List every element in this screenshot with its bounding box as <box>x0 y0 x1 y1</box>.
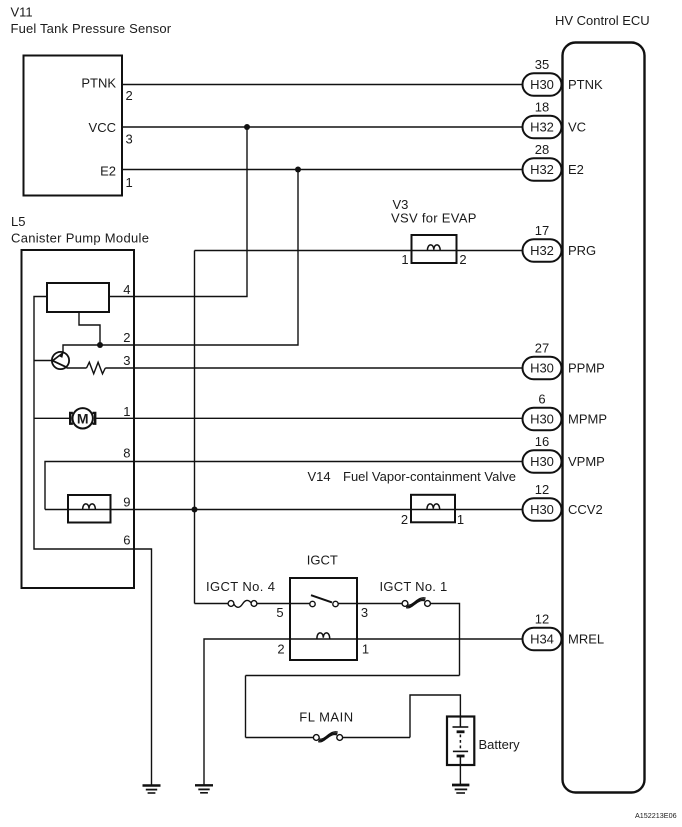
wire FL MAIN bottom right <box>343 737 410 739</box>
connector H30 pin 6 MPMP <box>523 392 608 431</box>
fuse IGCT No. 4 <box>228 600 257 607</box>
wire VCC <box>123 126 525 128</box>
wire IGCT No.1 branch down <box>431 604 460 676</box>
coil in vent valve <box>83 504 96 510</box>
wire VCC branch to L5 pin 4 <box>109 127 247 297</box>
battery B box <box>447 717 474 766</box>
svg-text:PPMP: PPMP <box>568 361 605 376</box>
valve V14 box <box>411 495 455 523</box>
wire pump left stub <box>34 360 53 362</box>
wire motor left stub <box>34 417 70 419</box>
svg-text:1: 1 <box>457 512 464 527</box>
svg-text:3: 3 <box>123 353 130 368</box>
svg-text:H30: H30 <box>530 454 554 469</box>
svg-text:M: M <box>77 410 89 426</box>
svg-text:18: 18 <box>535 100 549 115</box>
svg-text:Battery: Battery <box>479 737 521 752</box>
svg-text:PTNK: PTNK <box>81 76 116 91</box>
svg-text:3: 3 <box>361 605 368 620</box>
wire E2 <box>123 169 525 171</box>
wire pump to resistor <box>67 367 87 369</box>
wire MREL <box>357 638 524 640</box>
node E2 junction <box>295 167 301 173</box>
svg-text:8: 8 <box>123 446 130 461</box>
sensor element rect (L5 internal) <box>47 283 109 312</box>
svg-text:H30: H30 <box>530 502 554 517</box>
svg-text:A152213E06: A152213E06 <box>635 811 677 820</box>
wire PRG feed vertical <box>194 251 196 604</box>
svg-text:1: 1 <box>362 642 369 657</box>
svg-text:HV Control ECU: HV Control ECU <box>555 13 650 28</box>
svg-text:Canister Pump Module: Canister Pump Module <box>11 231 149 246</box>
wire FL MAIN top <box>246 675 460 677</box>
svg-text:12: 12 <box>535 482 549 497</box>
svg-text:35: 35 <box>535 57 549 72</box>
wire battery feed <box>410 695 460 738</box>
svg-text:IGCT No. 4: IGCT No. 4 <box>206 579 275 594</box>
wire fuse to relay switch <box>257 603 311 605</box>
svg-text:5: 5 <box>276 605 283 620</box>
svg-text:12: 12 <box>535 612 549 627</box>
svg-text:IGCT: IGCT <box>307 553 338 568</box>
fuse IGCT No. 1 (fusible link) <box>402 598 430 608</box>
coil V14 <box>427 504 440 510</box>
svg-text:1: 1 <box>401 252 408 267</box>
connector H32 pin 17 PRG <box>523 223 597 262</box>
svg-text:2: 2 <box>401 512 408 527</box>
connector H30 pin 35 PTNK <box>523 57 604 96</box>
connector H32 pin 28 E2 <box>523 142 584 181</box>
wire internal common (sensor left / pin 6) <box>34 297 152 785</box>
svg-text:H30: H30 <box>530 412 554 427</box>
svg-text:28: 28 <box>535 142 549 157</box>
relay IGCT box <box>290 578 357 660</box>
wire switch to pin 3 <box>338 603 357 605</box>
svg-text:4: 4 <box>123 282 130 297</box>
svg-text:E2: E2 <box>568 162 584 177</box>
wire E2 branch to L5 pin 2 <box>63 170 298 354</box>
module L5 box <box>22 250 135 588</box>
svg-text:Fuel Vapor-containment Valve: Fuel Vapor-containment Valve <box>343 469 516 484</box>
node pin 2 junction <box>97 342 103 348</box>
wire IGCT No.4 feed <box>195 603 232 605</box>
battery plates <box>453 717 469 766</box>
svg-text:6: 6 <box>123 533 130 548</box>
ground (IGCT coil) <box>195 785 213 793</box>
connector H34 pin 12 MREL <box>523 612 605 651</box>
svg-text:H32: H32 <box>530 243 554 258</box>
svg-text:V14: V14 <box>308 469 331 484</box>
svg-text:MREL: MREL <box>568 632 604 647</box>
svg-text:2: 2 <box>126 88 133 103</box>
wire pin 3 PPMP <box>105 367 524 369</box>
svg-text:2: 2 <box>459 252 466 267</box>
wire PTNK <box>123 84 525 86</box>
svg-text:MPMP: MPMP <box>568 412 607 427</box>
sensor V11 box <box>24 56 123 196</box>
svg-text:3: 3 <box>126 132 133 147</box>
svg-text:H32: H32 <box>530 162 554 177</box>
connector H32 pin 18 VC <box>523 100 587 139</box>
valve V3 box <box>412 235 457 263</box>
svg-text:V11: V11 <box>11 5 33 20</box>
ground (battery) <box>452 785 469 793</box>
node CCV2 junction <box>192 507 198 513</box>
wire sensor element to pin 2 node <box>79 312 100 345</box>
wire IGCT coil to ground <box>204 639 290 785</box>
coil V3 <box>427 245 440 251</box>
svg-text:CCV2: CCV2 <box>568 502 603 517</box>
wire pin 8 VPMP <box>45 462 524 510</box>
wire pin 1 MPMP <box>95 417 524 419</box>
svg-text:9: 9 <box>123 495 130 510</box>
label V14 Fuel Vapor-containment Valve <box>308 469 516 484</box>
svg-text:VSV for EVAP: VSV for EVAP <box>391 211 477 226</box>
svg-text:VC: VC <box>568 120 586 135</box>
svg-text:H30: H30 <box>530 361 554 376</box>
svg-text:H34: H34 <box>530 632 554 647</box>
pump P (circle with valve) <box>52 352 69 369</box>
wire battery to ground <box>459 765 461 784</box>
svg-text:E2: E2 <box>100 164 116 179</box>
svg-text:1: 1 <box>126 175 133 190</box>
motor M <box>70 408 95 428</box>
resistor (L5 internal) <box>87 362 106 374</box>
wire pin 9 CCV2 <box>45 509 524 511</box>
connector H30 pin 12 CCV2 <box>523 482 603 521</box>
fuse FL MAIN (fusible link) <box>313 732 342 742</box>
wire FL MAIN left <box>245 676 247 738</box>
svg-text:PRG: PRG <box>568 243 596 258</box>
svg-text:Fuel Tank Pressure Sensor: Fuel Tank Pressure Sensor <box>11 21 172 36</box>
svg-text:FL MAIN: FL MAIN <box>299 710 353 725</box>
svg-text:IGCT No. 1: IGCT No. 1 <box>380 579 448 594</box>
wire PRG <box>195 250 525 252</box>
HV Control ECU box <box>563 43 645 793</box>
svg-text:1: 1 <box>123 404 130 419</box>
ground (module) <box>143 786 161 794</box>
svg-text:6: 6 <box>538 392 545 407</box>
node VCC junction <box>244 124 250 130</box>
relay coil IGCT <box>317 633 330 639</box>
connector H30 pin 16 VPMP <box>523 434 605 473</box>
wire relay coil row <box>290 638 357 640</box>
svg-text:2: 2 <box>277 642 284 657</box>
svg-text:17: 17 <box>535 223 549 238</box>
switch contacts IGCT <box>310 595 338 607</box>
svg-text:16: 16 <box>535 434 549 449</box>
svg-text:27: 27 <box>535 341 549 356</box>
svg-text:H32: H32 <box>530 120 554 135</box>
svg-text:L5: L5 <box>11 214 25 229</box>
svg-text:2: 2 <box>123 330 130 345</box>
wire pin 3 to fuse IGCT No.1 <box>357 603 405 605</box>
solenoid vent valve box (L5 internal) <box>68 495 111 523</box>
svg-text:VPMP: VPMP <box>568 454 605 469</box>
wire FL MAIN bottom left <box>246 737 317 739</box>
connector H30 pin 27 PPMP <box>523 341 605 380</box>
svg-text:PTNK: PTNK <box>568 77 603 92</box>
svg-text:H30: H30 <box>530 77 554 92</box>
svg-text:VCC: VCC <box>89 120 116 135</box>
